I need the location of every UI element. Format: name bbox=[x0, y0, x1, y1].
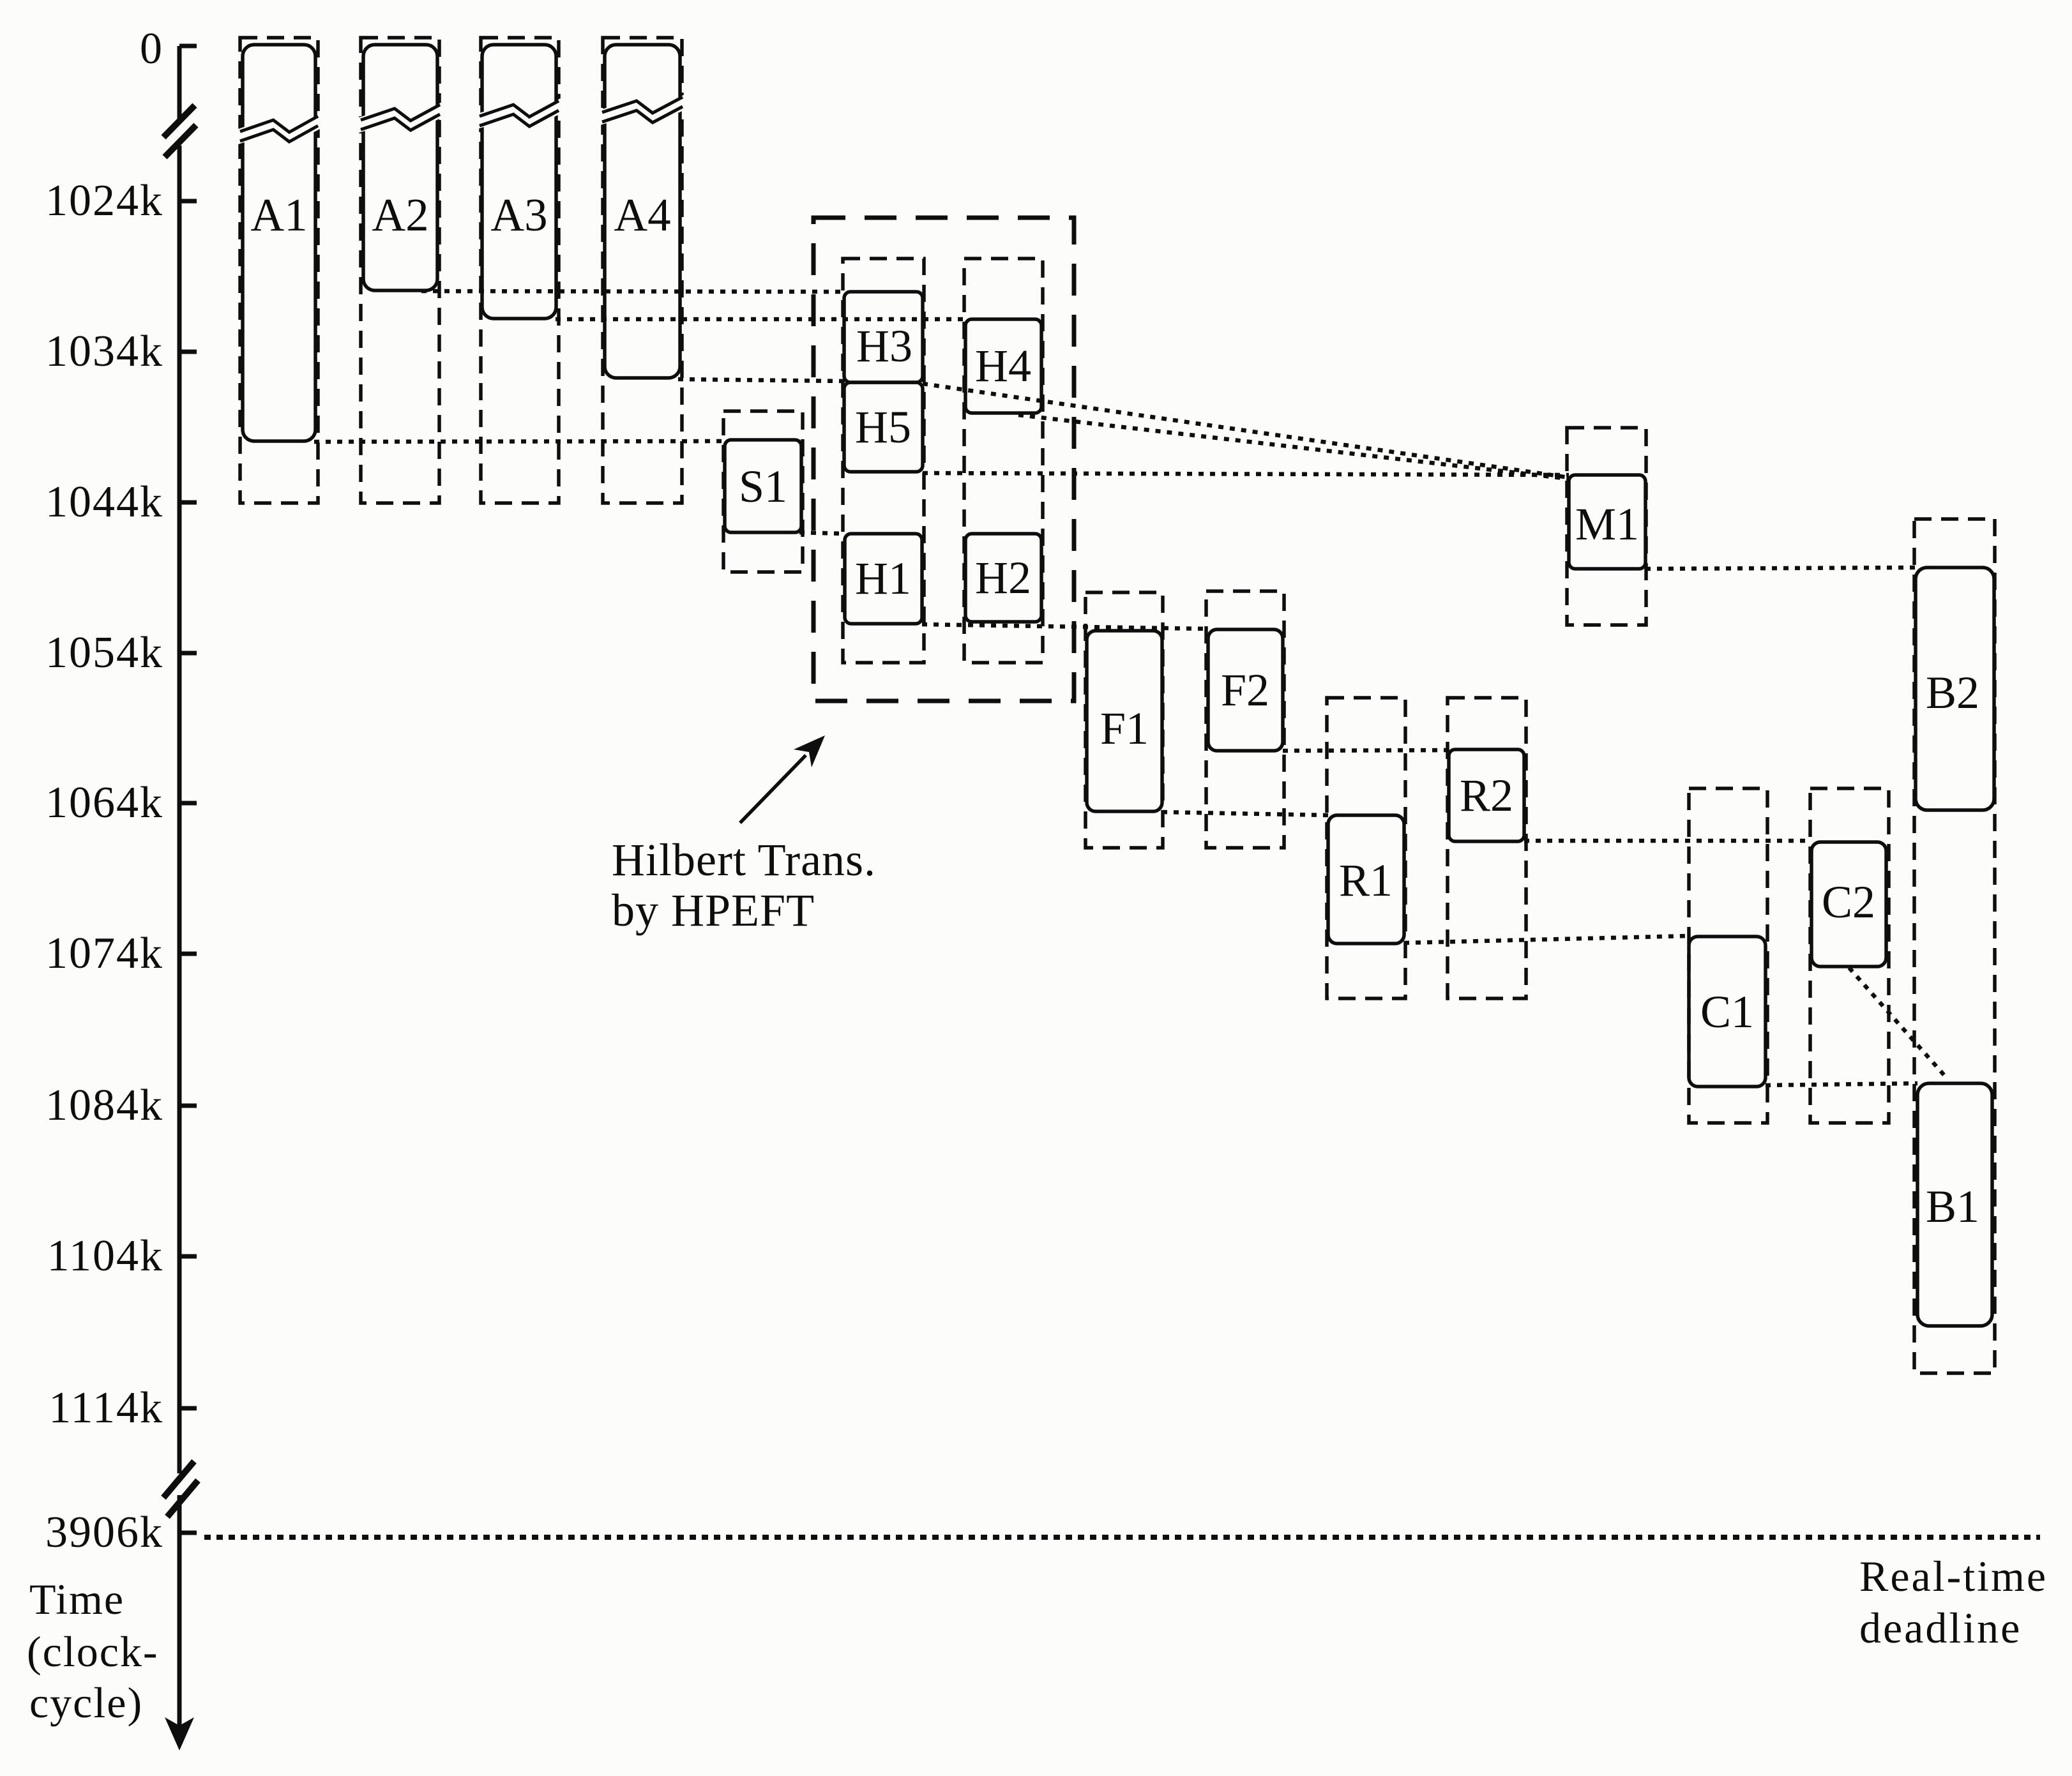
task B1 bbox=[1917, 1083, 1992, 1326]
task H1 bbox=[845, 534, 922, 624]
dependency H1/H2 to F1 bbox=[922, 624, 1207, 629]
dependency R2 to C2 bbox=[1524, 839, 1811, 843]
svg-text:H3: H3 bbox=[856, 320, 912, 372]
dependency C2 to B1 bbox=[1849, 968, 1947, 1079]
svg-text:Time: Time bbox=[29, 1575, 125, 1623]
dashed window C1 bbox=[1689, 788, 1767, 1123]
task H3 bbox=[844, 292, 923, 382]
svg-text:H2: H2 bbox=[975, 552, 1031, 603]
time axis vertical line bbox=[178, 46, 182, 1727]
axis arrowhead bbox=[165, 1717, 194, 1750]
task A1 bbox=[238, 45, 320, 441]
task R2 bbox=[1449, 749, 1524, 841]
axis title: Time (clock-cycle) bbox=[27, 1575, 159, 1727]
svg-text:F1: F1 bbox=[1100, 703, 1149, 754]
task F2 bbox=[1208, 629, 1283, 751]
svg-text:H4: H4 bbox=[975, 340, 1031, 391]
task R1 bbox=[1328, 815, 1404, 944]
svg-text:1074k: 1074k bbox=[45, 929, 163, 978]
svg-text:1024k: 1024k bbox=[45, 176, 163, 225]
dependency M1 to B2 bbox=[1645, 568, 1916, 569]
dependency A4 to H5 bbox=[678, 379, 844, 381]
dependency A3 to H4 bbox=[556, 317, 965, 322]
dependency R1 to C1 bbox=[1404, 936, 1689, 943]
task F1 bbox=[1087, 631, 1162, 811]
svg-text:M1: M1 bbox=[1575, 499, 1639, 550]
axis break top bbox=[163, 105, 196, 157]
task C1 bbox=[1689, 937, 1766, 1087]
svg-text:by HPEFT: by HPEFT bbox=[612, 885, 815, 936]
svg-text:0: 0 bbox=[140, 24, 163, 73]
task A3 bbox=[478, 45, 561, 319]
svg-text:1104k: 1104k bbox=[47, 1231, 163, 1281]
svg-text:1084k: 1084k bbox=[45, 1081, 163, 1130]
svg-text:1054k: 1054k bbox=[45, 628, 163, 677]
svg-text:S1: S1 bbox=[739, 461, 787, 512]
dependency C1 to B1 bbox=[1766, 1083, 1917, 1085]
svg-text:Hilbert Trans.: Hilbert Trans. bbox=[612, 834, 876, 885]
task H4 bbox=[965, 319, 1041, 413]
dashed window H3/H5/H1 column bbox=[843, 259, 924, 663]
dashed window A4 bbox=[603, 38, 682, 503]
dependency H4 to M1 bbox=[1018, 415, 1569, 479]
svg-text:deadline: deadline bbox=[1859, 1604, 2022, 1652]
task H2 bbox=[965, 534, 1041, 622]
dependency A1 to S1 bbox=[314, 441, 725, 442]
Hilbert group outer dashed box bbox=[813, 218, 1074, 701]
task C2 bbox=[1811, 842, 1886, 967]
svg-text:Real-time: Real-time bbox=[1859, 1552, 2048, 1600]
dashed window A1 bbox=[240, 38, 318, 503]
dashed window H4/H2 column bbox=[964, 259, 1043, 663]
real-time deadline dotted line bbox=[204, 1535, 2040, 1540]
dashed window F2 bbox=[1206, 591, 1284, 848]
dependency A2 to H3 bbox=[421, 291, 844, 292]
dashed window S1 bbox=[723, 411, 803, 572]
svg-text:1064k: 1064k bbox=[45, 778, 163, 827]
axis tick labels bbox=[45, 24, 163, 1557]
annotation arrow to Hilbert box bbox=[740, 735, 825, 823]
svg-text:A2: A2 bbox=[372, 189, 428, 241]
dependency S1 to H1 bbox=[799, 532, 845, 534]
dashed window B2/B1 bbox=[1914, 519, 1995, 1373]
task M1 bbox=[1569, 475, 1645, 569]
dashed window R2 bbox=[1448, 698, 1526, 998]
svg-text:A3: A3 bbox=[490, 189, 547, 241]
svg-text:C1: C1 bbox=[1700, 986, 1754, 1037]
svg-text:B2: B2 bbox=[1926, 667, 1979, 718]
task A4 bbox=[600, 45, 684, 378]
dependency F1 to R1 bbox=[1162, 812, 1328, 815]
real-time deadline label bbox=[1859, 1552, 2048, 1652]
dashed window M1 bbox=[1567, 428, 1646, 625]
svg-text:R1: R1 bbox=[1339, 855, 1393, 906]
svg-text:3906k: 3906k bbox=[45, 1508, 163, 1557]
task A2 bbox=[359, 45, 442, 290]
svg-text:A1: A1 bbox=[250, 189, 307, 241]
axis ticks bbox=[179, 46, 197, 1533]
dashed window C2 bbox=[1810, 788, 1889, 1123]
svg-text:1034k: 1034k bbox=[45, 327, 163, 376]
dashed window F1 bbox=[1085, 592, 1163, 848]
task S1 bbox=[725, 440, 801, 532]
dotted dependency lines bbox=[314, 291, 1947, 1085]
svg-text:cycle): cycle) bbox=[29, 1678, 143, 1727]
dependency F2 to R2 bbox=[1283, 750, 1449, 751]
task B2 bbox=[1916, 568, 1994, 810]
dependency H5 to M1 bbox=[923, 473, 1569, 475]
dashed window A2 bbox=[361, 38, 439, 503]
dashed window A3 bbox=[481, 38, 559, 503]
svg-text:(clock-: (clock- bbox=[27, 1627, 159, 1676]
svg-text:H1: H1 bbox=[855, 553, 911, 604]
svg-text:R2: R2 bbox=[1460, 770, 1513, 821]
axis break bottom bbox=[163, 1461, 198, 1517]
dashed window R1 bbox=[1327, 698, 1405, 998]
svg-text:1044k: 1044k bbox=[45, 478, 163, 527]
svg-text:F2: F2 bbox=[1221, 665, 1269, 716]
svg-text:B1: B1 bbox=[1926, 1181, 1979, 1232]
svg-text:A4: A4 bbox=[614, 189, 670, 241]
svg-text:1114k: 1114k bbox=[49, 1383, 163, 1433]
svg-text:H5: H5 bbox=[855, 402, 911, 453]
task H5 bbox=[844, 382, 923, 472]
svg-text:C2: C2 bbox=[1822, 877, 1875, 928]
dependency H3 to M1 bbox=[923, 384, 1569, 478]
annotation text Hilbert Trans. by HPEFT bbox=[612, 834, 876, 936]
